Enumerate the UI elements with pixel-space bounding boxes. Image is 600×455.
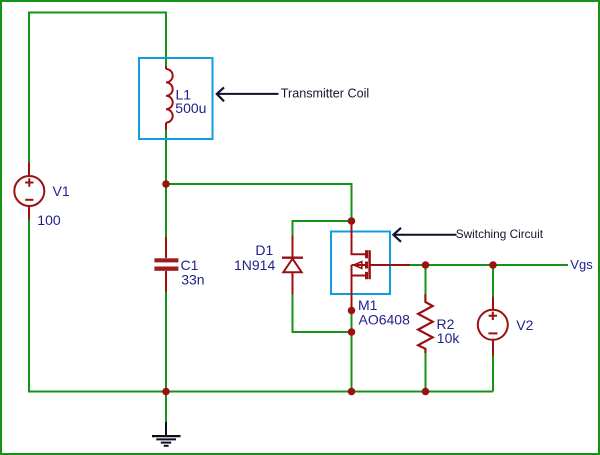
- svg-text:AO6408: AO6408: [359, 311, 411, 327]
- wire D1 top to node B: [293, 221, 352, 236]
- node B junction (351.5,221): [348, 217, 356, 225]
- wire node A to drain node B: [166, 184, 352, 221]
- resistor R2: [418, 294, 433, 353]
- C1 plate top: [154, 258, 178, 262]
- svg-text:D1: D1: [255, 242, 273, 258]
- wire D1 bottom to source node C: [293, 295, 352, 333]
- wire C1 bottom to ground rail: [165, 292, 167, 392]
- svg-text:V1: V1: [53, 183, 70, 199]
- highlight box around L1: [139, 58, 213, 139]
- ground: [152, 422, 181, 446]
- wire V1 bottom and bottom ground rail: [29, 220, 493, 392]
- voltage source V2: [478, 296, 508, 355]
- node A junction (166,184): [162, 180, 170, 188]
- arrow Transmitter Coil: [217, 87, 279, 101]
- voltage source V1: [14, 163, 44, 220]
- node source junction (351.5,310.5): [348, 307, 356, 315]
- svg-text:10k: 10k: [437, 330, 461, 346]
- svg-text:500u: 500u: [175, 100, 206, 116]
- wire V2 bottom lead: [492, 356, 494, 392]
- svg-text:V2: V2: [516, 317, 533, 333]
- node Vgs-R2 junction (425.5,265.5): [422, 261, 430, 269]
- wire L1 bottom through node A to C1 top: [165, 130, 167, 237]
- node ground rail junction (166,391): [162, 388, 170, 396]
- inductor L1: [166, 66, 173, 130]
- wire R2 top lead: [425, 265, 427, 299]
- node rail junction (351.5,391): [348, 388, 356, 396]
- highlight box around M1: [331, 232, 390, 295]
- node rail junction (425.5,391): [422, 388, 430, 396]
- node C junction (351.5,332): [348, 328, 356, 336]
- wire gate net Vgs: [410, 264, 568, 266]
- node Vgs-V2 junction (493,265.5): [489, 261, 497, 269]
- svg-text:Switching Circuit: Switching Circuit: [456, 227, 544, 241]
- diode D1: [282, 236, 303, 295]
- wire ground stem: [165, 392, 167, 422]
- wire V2 top lead: [492, 265, 494, 296]
- svg-text:Vgs: Vgs: [570, 257, 593, 272]
- svg-text:1N914: 1N914: [234, 257, 275, 273]
- svg-text:100: 100: [37, 212, 61, 228]
- capacitor C1: [165, 237, 167, 292]
- wire V1 top to L1 top: [29, 13, 166, 164]
- arrow Switching Circuit: [393, 228, 456, 242]
- MOSFET M1: [352, 221, 411, 311]
- svg-text:33n: 33n: [181, 271, 204, 287]
- svg-text:Transmitter Coil: Transmitter Coil: [281, 87, 369, 101]
- C1 plate bottom: [154, 267, 178, 271]
- wire M1 source node to ground rail: [351, 311, 353, 392]
- wire R2 bottom lead: [425, 349, 427, 392]
